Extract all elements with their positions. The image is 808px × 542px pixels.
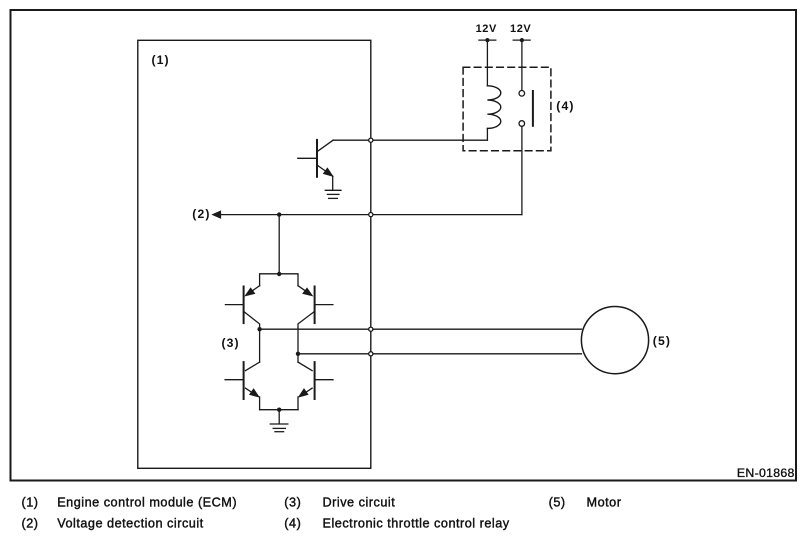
H-bridge top rail [260, 274, 298, 286]
12V terminal bar left [479, 39, 496, 41]
svg-text:12V: 12V [476, 23, 497, 35]
wire coil bottom [486, 128, 488, 140]
wire junction to H-bridge top [278, 215, 280, 274]
ECM boundary pin circle (2) [369, 213, 373, 217]
12V terminal dot left [485, 38, 489, 42]
transistor Q5 base wire [315, 379, 333, 381]
node dot on (2) wire [277, 212, 281, 216]
ECM box (1) [138, 40, 371, 468]
svg-text:Electronic throttle control re: Electronic throttle control relay [323, 517, 510, 531]
transistor Q2 (top-left) emitter wire [248, 286, 260, 294]
wire B to Q5 collector [297, 354, 299, 362]
transistor Q1 base wire [298, 157, 317, 159]
wire (2) voltage detection [219, 214, 522, 216]
transistor Q4 base wire [225, 379, 244, 381]
transistor Q1 collector [317, 140, 333, 152]
transistor Q5 emitter arrowhead [299, 389, 308, 397]
transistor Q2 emitter arrowhead [245, 288, 254, 296]
svg-text:(4): (4) [556, 99, 574, 113]
transistor Q1 bar [316, 140, 318, 177]
relay contact circle top [519, 91, 525, 97]
svg-text:(3): (3) [284, 496, 301, 510]
svg-text:(1): (1) [152, 53, 170, 67]
transistor Q4 bar [243, 362, 245, 399]
ground G1 [325, 189, 341, 191]
transistor Q1 emitter arrowhead [324, 168, 333, 176]
svg-text:Voltage detection circuit: Voltage detection circuit [57, 517, 204, 531]
wire 12V left to coil [486, 40, 488, 86]
ECM boundary pin circle collector [369, 138, 373, 142]
svg-text:(3): (3) [222, 336, 240, 350]
motor circle (5) [581, 307, 648, 374]
node dot bottom rail [277, 408, 281, 412]
transistor Q3 emitter arrowhead [303, 288, 312, 296]
wire collector to relay coil [333, 139, 487, 141]
transistor Q5 (bottom-right) collector [298, 362, 312, 371]
svg-text:Engine control module (ECM): Engine control module (ECM) [57, 496, 237, 510]
transistor Q5 emitter wire [303, 388, 313, 394]
svg-text:Motor: Motor [587, 496, 622, 510]
wire Q4 emitter down [259, 397, 261, 410]
transistor Q2 collector [244, 311, 260, 329]
relay coil [487, 86, 500, 129]
transistor Q3 base wire [315, 304, 333, 306]
wire emitter to ground [332, 176, 334, 190]
transistor Q4 (bottom-left) collector [246, 362, 260, 371]
ground G2 [270, 423, 288, 425]
wire bottom rail to ground [278, 410, 280, 424]
node dot wire B [296, 352, 300, 356]
svg-text:(4): (4) [284, 517, 301, 531]
motor wire B [298, 353, 582, 355]
transistor Q2 base wire [225, 304, 243, 306]
transistor Q2 bar [243, 287, 245, 324]
wire contact down to (2) wire [521, 127, 523, 215]
transistor Q3 bar [314, 287, 316, 324]
transistor Q5 bar [314, 362, 316, 399]
node dot wire A [257, 327, 261, 331]
svg-text:(2): (2) [192, 207, 210, 221]
svg-text:EN-01868: EN-01868 [737, 466, 795, 480]
transistor Q3 (top-right) emitter wire [298, 286, 310, 294]
svg-text:(2): (2) [22, 517, 39, 531]
transistor Q4 emitter arrowhead [250, 389, 259, 397]
transistor Q4 emitter wire [246, 388, 256, 394]
relay dashed box (4) [463, 67, 551, 151]
svg-text:(1): (1) [22, 496, 39, 510]
transistor Q1 emitter [317, 165, 331, 175]
svg-text:(5): (5) [653, 334, 671, 348]
12V terminal dot right [520, 38, 524, 42]
wire A to Q4 collector [259, 329, 261, 362]
relay contact circle bottom [519, 121, 525, 127]
svg-text:12V: 12V [510, 23, 531, 35]
transistor Q3 collector [298, 311, 315, 353]
12V terminal bar right [513, 39, 530, 41]
ECM boundary pin circle wire B [369, 352, 373, 356]
svg-text:(5): (5) [549, 496, 566, 510]
arrowhead (2) [213, 211, 221, 218]
svg-text:Drive circuit: Drive circuit [323, 496, 396, 510]
motor wire A [260, 328, 582, 330]
relay switch blade [532, 91, 534, 126]
node dot H-bridge top [277, 272, 281, 276]
ECM boundary pin circle wire A [369, 327, 373, 331]
H-bridge bottom rail [260, 409, 298, 411]
wire 12V right to contact [521, 40, 523, 90]
wire Q5 emitter down [297, 397, 299, 410]
